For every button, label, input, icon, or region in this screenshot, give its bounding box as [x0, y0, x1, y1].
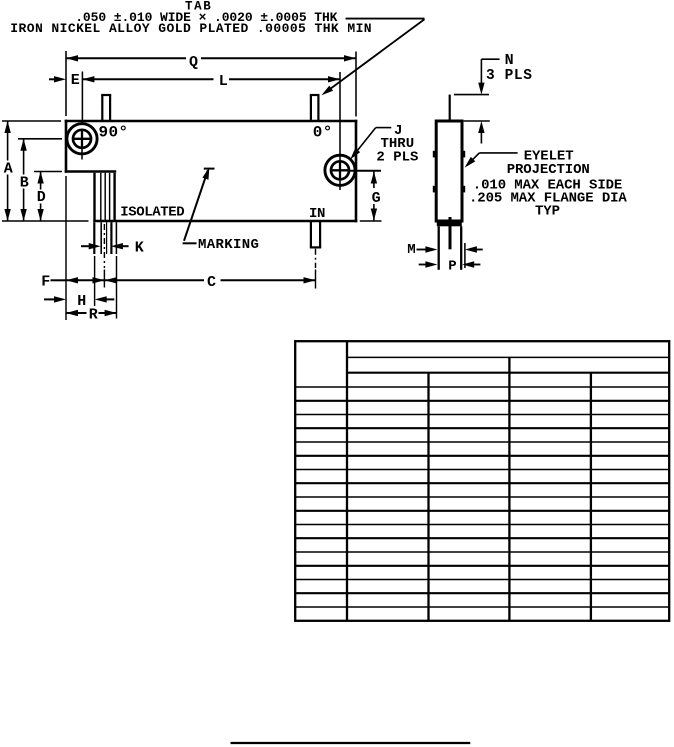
svg-text:3 PLS: 3 PLS [486, 68, 533, 84]
front view body outline left edge [65, 120, 68, 173]
IN pin centerline (dash-dot) [315, 249, 317, 289]
right eyelet (0 deg) circles [325, 155, 355, 185]
extension lines for K F C H R [66, 176, 117, 320]
dimension K [81, 239, 144, 256]
svg-text:D: D [37, 189, 46, 206]
svg-text:G: G [372, 190, 381, 207]
svg-text:H: H [77, 293, 86, 310]
dimension E [49, 72, 80, 89]
dimension R [66, 306, 117, 323]
svg-text:R: R [89, 306, 98, 323]
svg-text:90°: 90° [99, 123, 129, 141]
right tab on top edge [310, 95, 320, 121]
svg-text:PROJECTION: PROJECTION [507, 162, 590, 178]
side view tab edge-on [449, 95, 451, 121]
svg-text:Q: Q [189, 54, 198, 71]
svg-text:L: L [219, 73, 228, 90]
dimension D [37, 172, 46, 222]
svg-text:IRON NICKEL ALLOY GOLD PLATED: IRON NICKEL ALLOY GOLD PLATED .00005 THK… [10, 21, 372, 36]
front view body outline top edge [65, 120, 358, 123]
note EYELET PROJECTION with leader [465, 149, 628, 220]
svg-text:MARKING: MARKING [198, 237, 259, 253]
svg-text:N: N [505, 52, 514, 69]
dimension Q [66, 54, 356, 71]
svg-text:E: E [71, 72, 80, 89]
left eyelet crosshair [73, 130, 92, 160]
svg-text:0°: 0° [313, 123, 333, 141]
front view body outline right edge [355, 120, 358, 223]
svg-text:TYP: TYP [535, 204, 560, 220]
label ISOLATED [120, 204, 184, 220]
svg-text:K: K [135, 239, 144, 256]
label 90 degrees [99, 123, 129, 141]
svg-text:ISOLATED: ISOLATED [120, 204, 184, 220]
label IN [309, 206, 325, 222]
side view body [436, 121, 462, 221]
dimension F [41, 273, 104, 290]
bottom rule line [231, 742, 471, 744]
IN pin below body [310, 221, 321, 247]
lead group centerline (dash-dot) [103, 224, 105, 288]
svg-text:IN: IN [309, 206, 325, 222]
front view body outline bottom edge [93, 220, 357, 223]
dimension P [419, 259, 481, 275]
extension lines for Q L E [66, 51, 356, 124]
svg-text:M: M [407, 242, 415, 258]
dimension H [44, 293, 114, 310]
isolated leads inside notch [95, 173, 115, 220]
dimension C [105, 274, 316, 291]
dimension N with leader and 3 PLS note [454, 52, 533, 143]
label MARKING with leader [183, 167, 260, 253]
svg-text:A: A [4, 160, 13, 177]
svg-text:B: B [20, 174, 29, 191]
right eyelet vertical centerline extension [339, 72, 341, 190]
front view notch top edge [65, 170, 117, 173]
note: TAB material callout text [10, 0, 372, 36]
left eyelet (90 deg) circles [67, 124, 97, 154]
dimension L [82, 73, 340, 90]
svg-text:C: C [207, 274, 216, 291]
right eyelet crosshair [331, 161, 350, 180]
svg-text:2 PLS: 2 PLS [376, 149, 418, 165]
side view bottom flange bar [437, 222, 462, 226]
dimension M [407, 242, 482, 268]
dimension table grid (empty) [295, 341, 669, 621]
dimension A [4, 121, 13, 221]
isolated leads below body [94, 222, 116, 254]
svg-text:F: F [41, 273, 50, 290]
note J THRU 2 PLS with leader [350, 123, 418, 166]
side view leads below [439, 217, 462, 270]
extension lines for A B D [2, 121, 89, 221]
side view eyelet projection bumps [433, 151, 465, 193]
left tab on top edge [101, 95, 111, 121]
label 0 degrees [313, 123, 333, 141]
svg-text:P: P [448, 259, 456, 275]
leader from TAB note to right tab [322, 19, 425, 96]
dimension B [20, 139, 29, 221]
dimension G [350, 171, 382, 221]
